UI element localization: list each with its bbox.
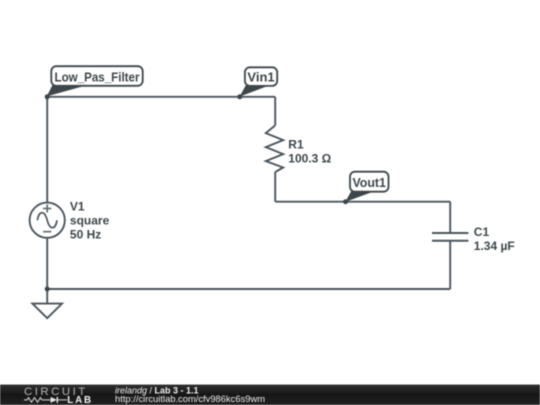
- svg-text:C1: C1: [474, 225, 490, 239]
- logo diode wire: [58, 399, 67, 401]
- svg-text:1.34 µF: 1.34 µF: [474, 239, 515, 253]
- svg-text:V1: V1: [70, 199, 85, 213]
- source V1 circle: [30, 203, 65, 238]
- svg-text:100.3 Ω: 100.3 Ω: [288, 151, 331, 165]
- wire top: node A to resistor top corner: [47, 96, 275, 98]
- source V1 sine: [37, 213, 57, 228]
- capacitor C1: [432, 233, 468, 241]
- label tail Vout1: [345, 190, 373, 202]
- svg-text:R1: R1: [288, 137, 304, 151]
- svg-text:Low_Pas_Filter: Low_Pas_Filter: [55, 70, 140, 85]
- wire mid: resistor to capacitor: [275, 201, 450, 203]
- wire left top: node A to source: [46, 97, 48, 203]
- label tail Vin1: [240, 84, 268, 96]
- label tail Low_Pas_Filter: [47, 84, 85, 96]
- svg-text:50 Hz: 50 Hz: [70, 227, 101, 241]
- label V1 value: [70, 199, 110, 241]
- ground: [32, 304, 62, 319]
- node Low_Pas_Filter dot: [45, 94, 50, 99]
- wire: capacitor top lead: [449, 202, 451, 233]
- wire: ground node to ground symbol: [46, 289, 48, 304]
- wire: source bottom to ground node: [46, 238, 48, 289]
- svg-text:Vin1: Vin1: [247, 70, 274, 85]
- wire: capacitor bottom lead: [449, 241, 451, 289]
- svg-text:http://circuitlab.com/cfv986kc: http://circuitlab.com/cfv986kc6s9wm: [115, 393, 265, 404]
- wire: resistor bottom to mid wire: [274, 172, 276, 202]
- node Vout1 dot: [343, 199, 348, 204]
- footer bar: [0, 385, 540, 405]
- logo resistor zigzag: [24, 398, 51, 403]
- svg-text:LAB: LAB: [67, 395, 93, 405]
- logo diode: [51, 397, 58, 403]
- label R1 value: [288, 137, 331, 165]
- node label Vin1: [245, 67, 277, 86]
- svg-text:square: square: [70, 213, 110, 227]
- source V1 minus: [43, 231, 51, 233]
- wire bottom: ground rail: [47, 288, 450, 290]
- label C1 value: [474, 225, 515, 253]
- node label Low_Pas_Filter: [51, 66, 142, 86]
- node label Vout1: [350, 172, 389, 192]
- source V1 plus: [43, 204, 51, 231]
- svg-text:Vout1: Vout1: [352, 175, 386, 190]
- resistor R1: [266, 125, 283, 172]
- node Vin1 dot: [237, 94, 242, 99]
- ground junction dot: [45, 287, 50, 292]
- wire: resistor bottom corner to mid horizontal: [274, 97, 276, 126]
